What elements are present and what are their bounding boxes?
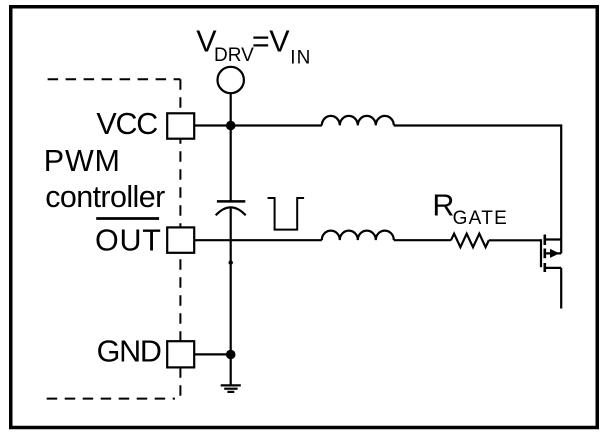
svg-text:OUT: OUT bbox=[95, 223, 162, 257]
svg-text:VCC: VCC bbox=[96, 107, 157, 141]
svg-text:IN: IN bbox=[290, 47, 311, 68]
svg-text:GATE: GATE bbox=[453, 208, 509, 229]
svg-text:=V: =V bbox=[252, 25, 290, 59]
svg-text:GND: GND bbox=[97, 335, 161, 369]
svg-text:R: R bbox=[432, 189, 454, 223]
svg-text:controller: controller bbox=[45, 180, 165, 214]
svg-text:PWM: PWM bbox=[44, 144, 121, 178]
svg-text:DRV: DRV bbox=[214, 45, 254, 66]
